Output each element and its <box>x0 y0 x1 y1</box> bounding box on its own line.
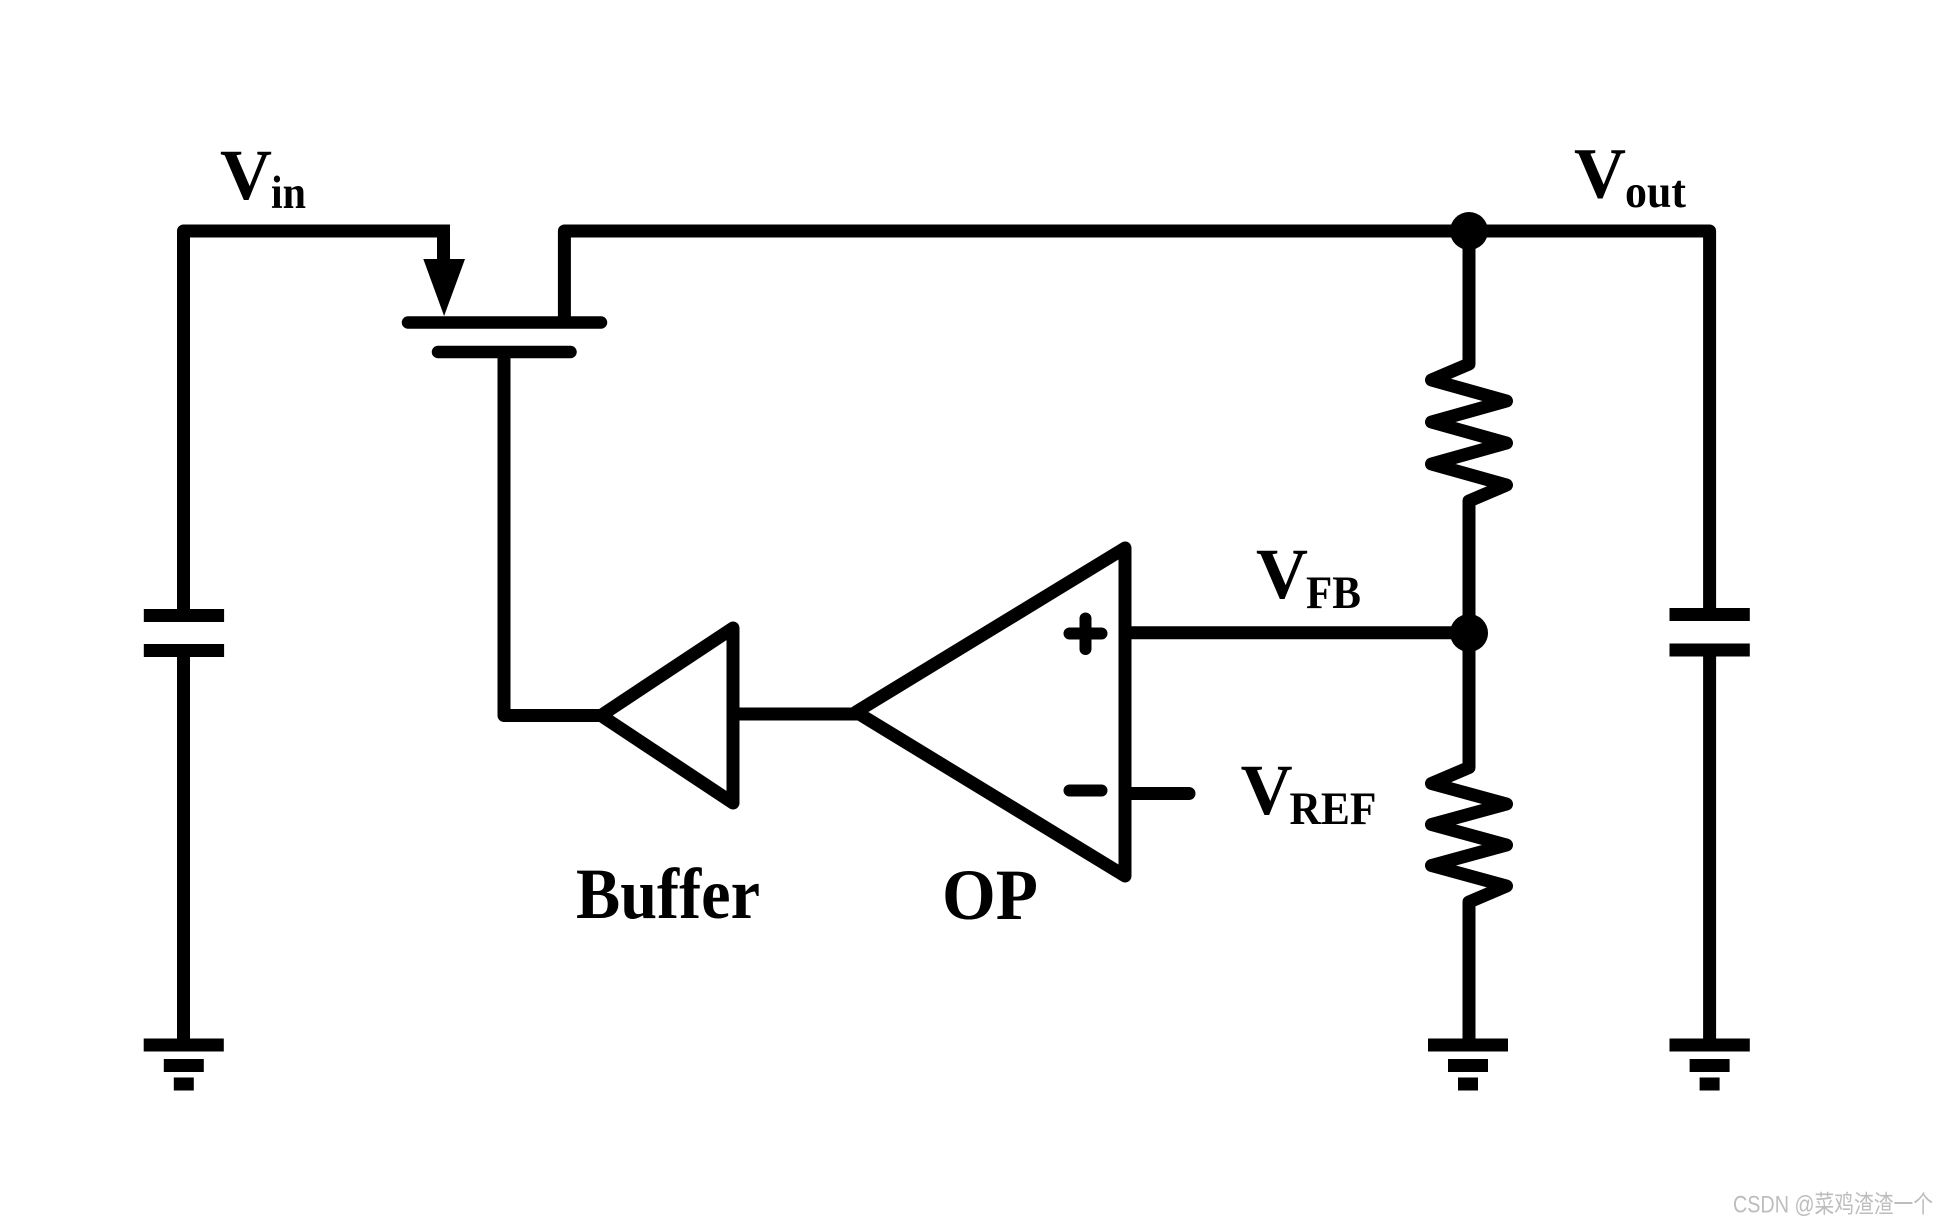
wire C2 bottom to ground <box>1703 650 1716 1041</box>
node VFB junction dot <box>1450 614 1488 652</box>
ground middle: bar3 <box>1458 1078 1478 1091</box>
op-amp U1 plus sign horizontal <box>1070 628 1102 640</box>
ground left: bar1 <box>144 1039 224 1052</box>
svg-text:V: V <box>1574 134 1626 214</box>
capacitor C2 output cap bottom plate <box>1670 644 1750 657</box>
wire buffer output to M1 gate <box>504 352 601 716</box>
ground right: bar2 <box>1690 1059 1730 1072</box>
svg-text:V: V <box>1241 750 1293 830</box>
wire Vin rail (left vertical + top horizontal to pass transistor source) <box>184 231 451 611</box>
op-amp U1 plus sign vertical <box>1080 619 1092 650</box>
svg-text:OP: OP <box>942 855 1038 935</box>
transistor M1 source arrow head <box>423 259 465 316</box>
wire M1 drain up + top rail to Vout corner + right rail down <box>564 231 1709 611</box>
ground right: bar1 <box>1670 1039 1750 1052</box>
node Vout junction dot <box>1450 212 1488 250</box>
svg-text:Buffer: Buffer <box>576 854 760 934</box>
svg-text:CSDN @菜鸡渣渣一个: CSDN @菜鸡渣渣一个 <box>1733 1191 1933 1219</box>
wire C1 bottom to ground <box>177 651 190 1042</box>
capacitor C2 output cap top plate <box>1670 608 1750 621</box>
ground left: bar2 <box>164 1059 204 1072</box>
op-amp U1 triangle <box>856 548 1125 876</box>
capacitor C1 input cap bottom plate <box>144 644 224 657</box>
svg-text:V: V <box>220 135 272 215</box>
transistor M1 gate bar <box>438 346 571 359</box>
ground middle: bar2 <box>1448 1059 1488 1072</box>
resistor R1 (upper feedback resistor, with leads) <box>1432 248 1507 633</box>
ground left: bar3 <box>174 1078 194 1091</box>
svg-text:in: in <box>271 167 306 219</box>
op-amp U1 minus sign <box>1070 785 1102 797</box>
buffer U2 triangle <box>601 628 733 803</box>
ground middle (under R2): bar1 <box>1428 1039 1508 1052</box>
transistor M1 channel bar <box>408 316 601 329</box>
wire op-amp output to buffer input <box>733 708 858 721</box>
svg-text:REF: REF <box>1290 783 1377 835</box>
ground right: bar3 <box>1700 1078 1720 1091</box>
svg-text:V: V <box>1256 534 1308 614</box>
wire op-amp minus input stub to VREF <box>1128 787 1189 800</box>
transistor M1 source arrow drop wire <box>437 231 450 266</box>
resistor R2 (lower feedback resistor, with leads) <box>1432 633 1507 1041</box>
svg-text:out: out <box>1625 166 1686 218</box>
capacitor C1 input cap top plate <box>144 609 224 622</box>
svg-text:FB: FB <box>1306 567 1361 619</box>
wire VFB node to op-amp plus input <box>1125 626 1469 639</box>
